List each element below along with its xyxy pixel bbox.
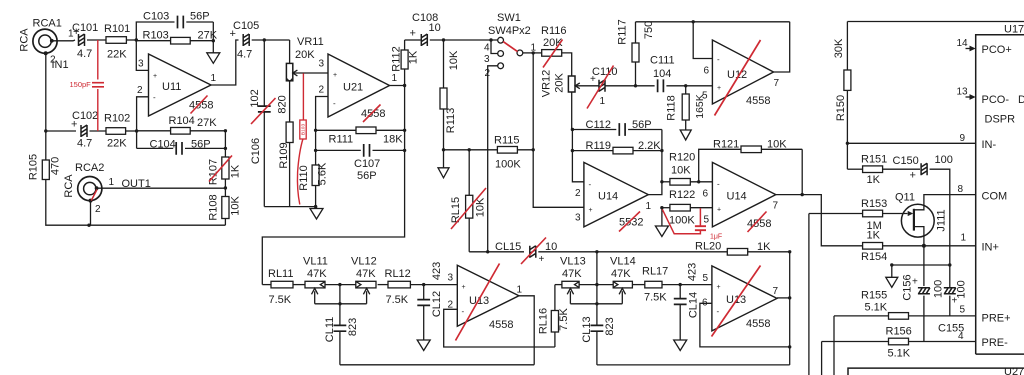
wire U13 pin6 feedback loop xyxy=(700,303,790,347)
svg-text:7.5K: 7.5K xyxy=(558,308,570,331)
svg-text:R156: R156 xyxy=(886,326,912,338)
red strike through C110 xyxy=(587,66,614,109)
svg-text:27K: 27K xyxy=(197,117,217,129)
svg-text:B103: B103 xyxy=(300,124,306,136)
svg-text:CL15: CL15 xyxy=(495,241,521,253)
svg-text:5.6K: 5.6K xyxy=(317,162,329,185)
red capacitor 150pF between channels xyxy=(97,40,99,131)
potentiometer VL14 47K xyxy=(613,281,632,288)
red switch position line xyxy=(503,42,517,52)
svg-text:+: + xyxy=(410,28,416,40)
svg-text:7: 7 xyxy=(773,201,779,212)
op-amp U21 xyxy=(328,54,390,117)
resistor R102 22K xyxy=(90,130,107,132)
svg-text:J111: J111 xyxy=(935,209,947,231)
svg-text:U17: U17 xyxy=(1004,24,1024,36)
red annotation in RCA2 xyxy=(91,190,97,201)
svg-text:14: 14 xyxy=(957,38,969,49)
svg-text:U14: U14 xyxy=(598,191,618,203)
capacitor CL15 10 (struck out) xyxy=(530,246,536,258)
wire C150 to vertical rail xyxy=(930,169,950,287)
svg-text:1: 1 xyxy=(646,201,652,212)
svg-text:56P: 56P xyxy=(190,11,210,23)
red strike through U14 4558 xyxy=(748,212,767,233)
svg-text:+: + xyxy=(717,85,721,92)
IC U17 box xyxy=(976,35,1024,354)
svg-text:423: 423 xyxy=(686,263,698,281)
resistor R119 2.2K feedback xyxy=(572,150,613,152)
red replacement pot annotation next to R109 xyxy=(302,73,304,120)
capacitor CL13 823 xyxy=(596,285,598,326)
wire U13 output column xyxy=(519,296,534,365)
svg-text:R116: R116 xyxy=(541,25,566,37)
svg-text:R118: R118 xyxy=(665,95,677,120)
resistor R156 5.1K xyxy=(822,341,889,343)
Q11 channel bar xyxy=(913,209,915,231)
switch contact bracket xyxy=(491,40,498,54)
capacitor C112 56P feedback xyxy=(572,129,616,131)
svg-text:7: 7 xyxy=(773,286,779,297)
svg-text:150pF: 150pF xyxy=(70,80,92,89)
red strike through 5532 xyxy=(619,212,640,232)
svg-text:R102: R102 xyxy=(104,113,130,125)
wire U14 output to R154 path xyxy=(776,195,863,246)
svg-text:RCA: RCA xyxy=(18,28,30,52)
resistor R150 30K xyxy=(846,22,848,71)
svg-text:CL14: CL14 xyxy=(687,292,699,318)
svg-text:2: 2 xyxy=(95,204,101,215)
wire R153 left rail down off page xyxy=(808,214,810,375)
capacitor CL12 423 xyxy=(423,285,425,300)
svg-text:VL12: VL12 xyxy=(351,256,377,268)
wire U11 output up to C105 xyxy=(211,40,239,85)
wire RCA1 pin1 to C101 xyxy=(52,39,75,42)
svg-text:R155: R155 xyxy=(861,290,887,302)
VR12 wiper arrow xyxy=(577,85,599,87)
red strike through second U13 xyxy=(712,266,761,337)
resistor RL17 7.5K xyxy=(632,284,644,286)
svg-text:-: - xyxy=(717,55,720,64)
svg-text:2: 2 xyxy=(575,188,581,199)
svg-text:DSPR: DSPR xyxy=(985,114,1016,126)
wire rail junction down to VL13/VL14 node xyxy=(596,252,598,285)
svg-text:47K: 47K xyxy=(307,268,327,280)
svg-text:3: 3 xyxy=(575,213,581,224)
svg-text:RL16: RL16 xyxy=(537,308,549,334)
svg-text:100K: 100K xyxy=(669,215,695,227)
capacitor C108 10 xyxy=(405,39,421,41)
svg-text:4.7: 4.7 xyxy=(77,138,92,150)
red strike through RL15 xyxy=(451,188,486,229)
VL13 wiper xyxy=(567,288,573,304)
op-amp U14 second (4558 struck out) xyxy=(712,162,775,227)
wire CL15 to RL20 xyxy=(538,251,727,253)
svg-text:RL12: RL12 xyxy=(385,268,411,280)
svg-text:47K: 47K xyxy=(611,268,631,280)
svg-text:PCO+: PCO+ xyxy=(982,44,1012,56)
wire U12 pin6 from top rail xyxy=(693,22,712,59)
svg-text:4: 4 xyxy=(484,43,490,54)
resistor R108 10K xyxy=(222,197,229,219)
resistor R153 1M xyxy=(809,213,863,215)
svg-text:D: D xyxy=(1018,94,1024,106)
resistor R113 10K xyxy=(443,40,445,88)
resistor RL15 10K (struck out) xyxy=(468,150,470,196)
connector RCA1 xyxy=(33,29,57,53)
resistor R155 5.1K xyxy=(834,315,889,317)
svg-text:VL11: VL11 xyxy=(303,256,328,268)
svg-text:5532: 5532 xyxy=(619,217,643,229)
resistor R109 820 xyxy=(289,81,291,122)
capacitor C111 104 xyxy=(636,85,655,87)
svg-text:+: + xyxy=(590,74,596,85)
svg-text:+: + xyxy=(952,296,958,307)
svg-text:VR12: VR12 xyxy=(540,70,552,98)
potentiometer VR11 20K xyxy=(289,40,291,63)
svg-text:+: + xyxy=(462,284,466,291)
svg-text:C101: C101 xyxy=(72,22,98,34)
svg-text:423: 423 xyxy=(431,262,443,280)
svg-text:C112: C112 xyxy=(586,119,611,131)
potentiometer VR12 20K xyxy=(568,76,575,92)
svg-text:-: - xyxy=(333,99,336,108)
resistor R117 750 xyxy=(635,62,637,86)
svg-text:1: 1 xyxy=(211,73,217,84)
junction dots xyxy=(135,38,138,41)
svg-text:R113: R113 xyxy=(445,108,457,133)
op-amp U14 first (5532 struck out) xyxy=(584,162,648,227)
resistor RL20 1K xyxy=(727,249,747,256)
svg-text:27K: 27K xyxy=(198,30,218,42)
potentiometer VL11 47K xyxy=(293,284,305,286)
svg-text:5: 5 xyxy=(703,273,709,284)
svg-text:C106: C106 xyxy=(250,138,262,164)
resistor R105 470 xyxy=(42,160,49,180)
svg-text:+: + xyxy=(717,207,721,214)
svg-text:-: - xyxy=(589,180,592,189)
svg-text:R103: R103 xyxy=(143,30,169,42)
svg-text:9: 9 xyxy=(960,133,966,144)
svg-text:1: 1 xyxy=(961,233,967,244)
wire C110 to U12 pin5 node xyxy=(606,85,636,87)
wire R116 to VR12 xyxy=(562,53,572,76)
svg-text:1K: 1K xyxy=(229,164,241,178)
svg-text:C104: C104 xyxy=(150,139,176,151)
svg-text:-: - xyxy=(717,307,720,316)
svg-text:CL13: CL13 xyxy=(581,316,593,342)
wiper bracket joining VL11/VL12 xyxy=(315,303,367,305)
capacitor C103 56P feedback wire xyxy=(136,22,174,40)
svg-text:1K: 1K xyxy=(407,50,419,64)
VL12 wiper xyxy=(363,288,369,304)
svg-text:7.5K: 7.5K xyxy=(269,294,292,306)
capacitor C101 4.7 xyxy=(79,34,85,46)
IC U27 box xyxy=(848,368,1024,375)
svg-text:PRE+: PRE+ xyxy=(982,313,1011,325)
svg-text:R101: R101 xyxy=(104,23,130,35)
svg-text:R150: R150 xyxy=(835,95,847,121)
svg-text:R119: R119 xyxy=(586,140,611,152)
resistor R118 165K to ground arrow xyxy=(685,86,687,94)
svg-text:1: 1 xyxy=(600,96,606,107)
wire R150 top rail to edge xyxy=(847,21,1024,23)
svg-text:-: - xyxy=(462,307,465,316)
svg-text:R104: R104 xyxy=(169,115,195,127)
red strike through R107 xyxy=(209,156,232,182)
svg-text:C105: C105 xyxy=(233,20,259,32)
resistor R116 20K (struck out) xyxy=(533,52,542,54)
svg-text:1K: 1K xyxy=(867,174,881,186)
svg-text:104: 104 xyxy=(653,68,671,80)
svg-text:R117: R117 xyxy=(616,19,628,44)
wire to U12 pin5 xyxy=(686,85,713,87)
svg-text:4558: 4558 xyxy=(489,319,513,331)
svg-text:20K: 20K xyxy=(295,49,315,61)
ground rail above C155/C156 xyxy=(892,264,950,266)
svg-text:U11: U11 xyxy=(162,81,181,93)
svg-text:2: 2 xyxy=(319,85,325,96)
svg-text:823: 823 xyxy=(347,318,359,336)
capacitor C150 100 xyxy=(883,168,920,170)
svg-text:8: 8 xyxy=(958,184,964,195)
op-amp U13 first (struck out) xyxy=(457,265,519,326)
svg-text:4: 4 xyxy=(958,331,964,342)
svg-text:+: + xyxy=(153,73,157,80)
wire IN+ pin1 xyxy=(883,245,976,247)
resistor R121 10K feedback xyxy=(699,149,741,182)
svg-text:823: 823 xyxy=(604,317,616,335)
capacitor CL14 423 xyxy=(679,285,681,299)
resistor RL16 7.5K xyxy=(554,285,556,311)
svg-text:IN1: IN1 xyxy=(52,59,69,71)
svg-text:RCA1: RCA1 xyxy=(33,18,62,30)
svg-text:+: + xyxy=(71,119,77,131)
svg-text:6: 6 xyxy=(704,66,710,77)
svg-text:100: 100 xyxy=(935,154,953,166)
wire RCA2 pin2 to bottom rail xyxy=(90,201,92,226)
svg-text:1: 1 xyxy=(517,285,523,296)
svg-text:4558: 4558 xyxy=(361,108,385,120)
svg-text:1K: 1K xyxy=(867,230,881,242)
svg-text:+: + xyxy=(912,277,918,288)
svg-text:+: + xyxy=(230,28,236,40)
capacitor C106 102 (struck out) xyxy=(263,40,265,106)
resistor R104 27K feedback xyxy=(137,130,171,132)
bottom rail of input stage xyxy=(264,206,315,208)
svg-text:10K: 10K xyxy=(767,139,787,151)
svg-text:C111: C111 xyxy=(650,55,675,67)
VL11 wiper xyxy=(312,288,318,304)
potentiometer VL12 47K xyxy=(356,281,376,288)
VL14 wiper xyxy=(619,288,625,304)
wire C101 to R101 xyxy=(87,39,106,41)
lower channel: capacitor C102 4.7 xyxy=(46,130,76,132)
svg-text:U14: U14 xyxy=(727,191,747,203)
rail from RL15 through CL15 and RL20 xyxy=(469,251,524,253)
svg-text:U21: U21 xyxy=(343,82,363,94)
svg-text:R112: R112 xyxy=(390,46,402,71)
transistor Q11 J111 xyxy=(901,204,934,237)
svg-text:20K: 20K xyxy=(553,73,565,93)
svg-text:47K: 47K xyxy=(356,268,376,280)
svg-text:7.5K: 7.5K xyxy=(644,292,667,304)
svg-text:47K: 47K xyxy=(562,268,582,280)
svg-text:+: + xyxy=(539,254,545,265)
resistor R115 100K xyxy=(444,149,498,151)
op-amp U11 xyxy=(149,54,212,116)
svg-text:RL17: RL17 xyxy=(642,266,668,278)
wire R155 left rail down off page xyxy=(833,316,835,375)
svg-text:56P: 56P xyxy=(191,139,211,151)
Q11 drain to COM xyxy=(914,195,976,210)
wire R105 to bottom rail xyxy=(46,180,226,226)
svg-text:10K: 10K xyxy=(671,165,691,177)
svg-text:CL11: CL11 xyxy=(324,317,336,342)
svg-text:VL14: VL14 xyxy=(610,256,636,268)
VR11 wiper arrow from U21 pin3 wire xyxy=(294,72,328,74)
svg-text:1: 1 xyxy=(109,177,115,188)
svg-text:2.2K: 2.2K xyxy=(638,140,661,152)
svg-text:SW1: SW1 xyxy=(497,12,521,24)
bottom rail to CL13 xyxy=(597,364,790,366)
svg-text:22K: 22K xyxy=(107,138,127,150)
red strike through R116 xyxy=(543,40,563,68)
svg-text:4558: 4558 xyxy=(746,95,770,107)
wire U14 output to feedback column xyxy=(648,130,662,195)
svg-text:U13: U13 xyxy=(469,295,489,307)
svg-text:RL20: RL20 xyxy=(695,241,721,253)
svg-text:C150: C150 xyxy=(893,155,919,167)
svg-text:750: 750 xyxy=(643,21,655,39)
svg-text:R110: R110 xyxy=(298,165,310,190)
svg-text:18K: 18K xyxy=(383,134,403,146)
svg-text:3: 3 xyxy=(138,59,144,70)
svg-text:R122: R122 xyxy=(669,189,695,201)
capacitor C107 56P feedback xyxy=(316,149,361,151)
svg-text:6: 6 xyxy=(703,189,709,200)
svg-text:3: 3 xyxy=(319,59,325,70)
svg-text:VR11: VR11 xyxy=(297,36,324,48)
svg-text:R115: R115 xyxy=(494,135,519,147)
resistor R101 22K xyxy=(106,37,126,44)
wire C108 to switch xyxy=(430,39,498,41)
Q11 source to IN+ xyxy=(914,227,924,246)
svg-text:RCA: RCA xyxy=(63,174,75,198)
resistor R107 1K (struck out) xyxy=(224,131,226,157)
svg-text:10K: 10K xyxy=(229,196,241,216)
bottom rail to CL11 xyxy=(340,364,534,366)
svg-text:R151: R151 xyxy=(861,154,887,166)
svg-text:56P: 56P xyxy=(632,119,652,131)
U17 pin 14 PCO+ xyxy=(966,48,972,50)
svg-text:3: 3 xyxy=(484,54,490,65)
svg-text:1: 1 xyxy=(392,73,398,84)
capacitor CL11 823 xyxy=(339,285,341,326)
svg-text:R154: R154 xyxy=(861,251,887,263)
red strike through U13 xyxy=(456,264,500,341)
svg-text:10K: 10K xyxy=(448,50,460,70)
svg-text:Q11: Q11 xyxy=(895,192,915,204)
svg-text:R121: R121 xyxy=(713,139,739,151)
wire switch lower contact down to CL15 rail xyxy=(488,66,498,252)
svg-text:820: 820 xyxy=(276,95,288,113)
Q11 gate wire from R153 xyxy=(883,213,908,215)
op-amp U13 second (struck out) xyxy=(712,266,777,331)
resistor R120 10K xyxy=(662,181,670,183)
wire U12 output to top rail xyxy=(774,22,790,72)
resistor R154 1K xyxy=(863,243,883,250)
svg-text:56P: 56P xyxy=(357,170,377,182)
wire RL16 to VL13 xyxy=(555,284,562,286)
svg-text:VL13: VL13 xyxy=(560,256,586,268)
svg-text:22K: 22K xyxy=(107,49,127,61)
capacitor C110 1 (struck out) xyxy=(599,80,605,92)
wire IN- pin9 xyxy=(847,142,975,144)
capacitor C105 4.7 xyxy=(243,34,249,46)
svg-text:470: 470 xyxy=(49,157,61,175)
ground below R103 xyxy=(207,53,220,64)
svg-text:+: + xyxy=(333,72,337,79)
red strike through U21 4558 xyxy=(363,105,381,123)
ground below R110 xyxy=(316,207,318,209)
svg-text:1K: 1K xyxy=(757,241,771,253)
junction dot at IN+ xyxy=(922,244,926,248)
svg-text:R109: R109 xyxy=(278,142,290,168)
wire U13 pin2 feedback loop xyxy=(444,309,555,347)
svg-text:R111: R111 xyxy=(329,134,354,146)
arrow below R113 node xyxy=(443,150,445,168)
svg-text:PRE-: PRE- xyxy=(982,337,1009,349)
svg-text:+: + xyxy=(717,284,721,291)
resistor R111 18K feedback xyxy=(316,129,356,131)
svg-text:IN-: IN- xyxy=(982,139,997,151)
svg-text:13: 13 xyxy=(957,87,969,98)
resistor RL11 7.5K xyxy=(262,284,271,286)
svg-text:7.5K: 7.5K xyxy=(386,294,409,306)
wire switch node down to U14 pin3 xyxy=(533,53,584,207)
wire U21 output node down to tone controls xyxy=(262,86,404,285)
svg-text:COM: COM xyxy=(982,191,1008,203)
capacitor C155 100 xyxy=(944,288,956,294)
svg-text:PCO-: PCO- xyxy=(982,94,1010,106)
wire U13 output column xyxy=(777,297,790,299)
resistor R103 27K xyxy=(136,40,170,42)
wire C105 to VR11 xyxy=(252,39,290,41)
svg-text:5: 5 xyxy=(960,305,966,316)
svg-text:CL12: CL12 xyxy=(431,291,443,317)
wire VL11 to VL12 xyxy=(325,284,356,286)
svg-text:U27: U27 xyxy=(1004,366,1024,375)
svg-text:C107: C107 xyxy=(354,158,380,170)
svg-text:IN+: IN+ xyxy=(982,242,999,254)
connector RCA2 xyxy=(78,177,102,201)
svg-text:R105: R105 xyxy=(27,154,39,180)
svg-text:100: 100 xyxy=(932,280,944,298)
svg-text:4.7: 4.7 xyxy=(237,49,252,61)
svg-text:102: 102 xyxy=(249,89,261,107)
svg-text:RCA2: RCA2 xyxy=(75,162,104,174)
svg-text:10: 10 xyxy=(429,22,441,34)
svg-text:R120: R120 xyxy=(669,152,695,164)
wire VR12 bottom to U14 feedback column xyxy=(571,92,573,130)
red strike through U11 4558 xyxy=(191,96,208,114)
wiper bracket joining VL13/VL14 xyxy=(570,303,622,305)
wire switch pole to R116 xyxy=(523,52,533,54)
resistor R112 1K on U21 output xyxy=(390,69,405,86)
wire OUT1 to R107/R108 node xyxy=(97,187,226,189)
svg-text:2: 2 xyxy=(137,85,143,96)
wire RCA1 pin2 down left rail xyxy=(45,53,47,160)
